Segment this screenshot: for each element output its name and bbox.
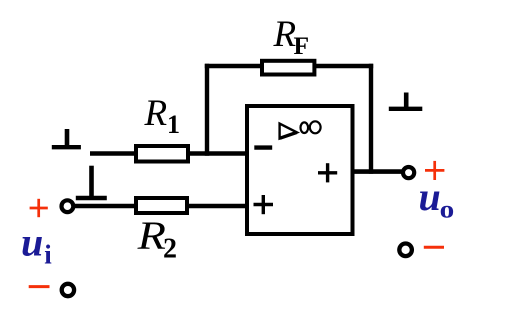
output plus polarity mark (red) (425, 169, 444, 172)
ground symbol (top right, floating) (404, 93, 409, 110)
ground symbol (input, above wire) (89, 166, 94, 198)
wire: RF left horizontal (205, 64, 262, 68)
wire: op-amp output to terminal (352, 169, 402, 174)
op-amp U1 box (247, 106, 353, 234)
svg-text:i: i (44, 240, 52, 270)
wire: feedback right vertical (369, 64, 373, 174)
ground symbol (top left, floating) (65, 129, 70, 147)
svg-text:R: R (144, 93, 168, 134)
wire: R1 to op-amp inverting input (188, 151, 249, 156)
resistor R1 (136, 146, 188, 162)
resistor RF (262, 61, 314, 75)
wire: feedback left vertical (205, 64, 209, 156)
input terminal + node (circle) (62, 200, 74, 212)
svg-text:o: o (440, 195, 455, 224)
op-amp gain triangle (280, 124, 297, 139)
wire: input to R1 (left stub) (90, 151, 138, 156)
svg-text:F: F (294, 31, 310, 60)
wire: input terminal to R2 (75, 204, 139, 209)
op-amp non-inverting input plus sign (254, 203, 274, 206)
op-amp inverting input minus sign (254, 145, 272, 149)
resistor R2 (136, 198, 187, 213)
svg-text:1: 1 (167, 110, 180, 139)
wire: RF right horizontal (314, 64, 373, 68)
input minus polarity mark (red) (29, 285, 50, 288)
op-amp infinity symbol (301, 122, 309, 133)
output minus polarity mark (red) (424, 246, 444, 249)
op-amp output polarity plus sign (318, 171, 337, 174)
svg-text:R: R (136, 213, 165, 258)
output terminal + node (circle) (403, 167, 414, 178)
svg-text:2: 2 (163, 234, 177, 265)
svg-text:u: u (419, 174, 441, 219)
output terminal - node (circle) (399, 244, 412, 257)
input terminal - node (circle) (62, 284, 74, 296)
wire: R2 to op-amp non-inverting input (187, 204, 249, 209)
svg-text:u: u (21, 220, 43, 265)
input plus polarity mark (red) (30, 207, 48, 210)
